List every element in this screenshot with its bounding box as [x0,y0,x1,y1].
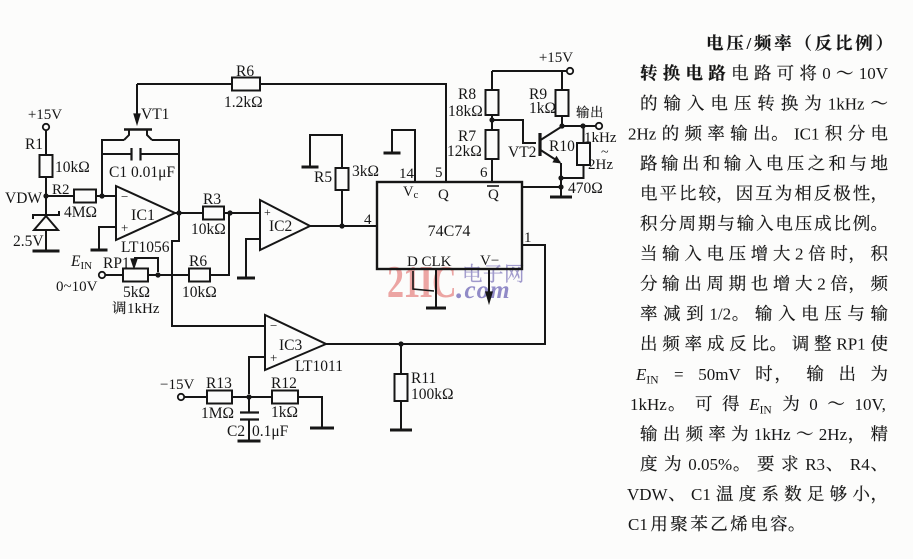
wire IC3 output [326,343,545,345]
svg-text:1.2kΩ: 1.2kΩ [224,94,263,111]
svg-text:=: = [674,365,684,384]
node emitter junction [558,175,563,180]
svg-text:E: E [748,395,760,414]
resistor R6b 10k [182,253,217,301]
svg-text:1MΩ: 1MΩ [201,405,234,422]
svg-text:LT1011: LT1011 [295,358,343,375]
svg-text:2: 2 [817,275,826,294]
wire CLK pin to ground [435,269,437,307]
svg-text:R3: R3 [805,455,825,474]
ground below C2 [238,440,261,443]
svg-text:RP1: RP1 [836,335,865,354]
transistor VT2 [508,127,561,163]
terminal E_IN [56,253,105,295]
wire EIN to RP1 [105,274,123,276]
wire D pin hook [413,271,434,291]
svg-text:LT1056: LT1056 [121,239,170,256]
resistor R5 3k [314,163,379,190]
svg-text:0: 0 [822,64,831,83]
wire R10 top [583,126,585,143]
svg-text:R12: R12 [271,375,297,392]
svg-text:R6: R6 [236,63,254,80]
svg-text:R3: R3 [203,191,221,208]
ground below R11 [390,429,412,432]
svg-text:Q: Q [488,187,499,203]
svg-text:0.05%: 0.05% [688,455,732,474]
svg-text:2Hz: 2Hz [819,425,848,444]
wire rail down to R8 [491,71,493,90]
svg-text:12kΩ: 12kΩ [447,143,482,160]
wire R12 to ground [298,397,322,427]
resistor R12 1k [271,375,298,421]
wire R6 to 74C74 pin5 [260,84,446,182]
capacitor C2 0.1uF [227,397,289,440]
resistor R6 1.2k [224,63,263,111]
wire R11 bottom to ground [400,401,402,429]
svg-text:−: − [121,189,128,204]
IC 74C74 flip-flop body [377,182,522,269]
svg-text:+: + [270,350,277,365]
ground above R5 [302,166,319,169]
ground at IC1 + input [91,249,108,252]
svg-text:10kΩ: 10kΩ [191,221,226,238]
svg-text:0: 0 [809,395,818,414]
svg-text:VDW: VDW [5,190,42,207]
svg-text:R11: R11 [411,370,436,387]
svg-text:1kHz: 1kHz [630,395,667,414]
svg-text:V−: V− [480,253,499,269]
svg-text:5kΩ: 5kΩ [123,284,150,301]
svg-text:0.1μF: 0.1μF [252,423,289,440]
wire R1 to VDW node [45,177,47,197]
wire Qbar line to emitter ground node [521,186,561,188]
ground right of R12 [310,427,334,430]
svg-text:IC1: IC1 [794,124,820,143]
zener diode VDW 2.5V [13,196,59,251]
resistor R3 10k [191,191,226,238]
svg-text:4MΩ: 4MΩ [64,204,97,221]
wire R5 top to ground [310,135,342,168]
svg-text:VT2: VT2 [508,144,536,161]
svg-text:R10: R10 [549,138,575,155]
node output dot [580,123,585,128]
svg-text:−: − [270,318,277,333]
wire VT2 emitter down [560,163,562,187]
resistor R10 470 [549,138,590,165]
svg-text:4: 4 [364,212,372,228]
svg-text:R6: R6 [189,253,207,270]
node +15V terminal (right) [539,50,573,74]
wire R7 to pin6 [491,159,493,182]
wire V- pin downward arrow [486,269,492,303]
node R8-R7 junction [491,115,493,130]
wire RP1 to R4 [148,274,189,276]
wire IC1 output down to IC3 [172,213,265,326]
svg-text:10V,: 10V, [855,395,886,414]
svg-text:C2: C2 [227,423,245,440]
svg-text:C1: C1 [628,515,648,534]
svg-text:RP1: RP1 [103,255,130,272]
wire +15V down to R9 [561,71,563,90]
wire output node [562,125,596,127]
wire IC1 noninverting input to ground [99,227,116,250]
svg-text:VDW: VDW [627,485,669,504]
resistor R7 12k [447,128,499,160]
op-amp IC2 [260,200,310,250]
svg-text:1kHz: 1kHz [828,94,865,113]
svg-text:18kΩ: 18kΩ [448,103,483,120]
svg-text:1kHz: 1kHz [754,425,791,444]
resistor R2 4M [52,182,97,221]
svg-text:R2: R2 [52,182,70,198]
svg-text:2: 2 [795,245,804,264]
wire R3 to IC2 [224,212,260,214]
wire IC1 inverting input [102,195,116,197]
potentiometer RP1 5k [103,255,150,301]
svg-text:CLK: CLK [422,254,452,270]
wire R13 to node [232,396,272,398]
wire node to ground [560,187,562,196]
wire node to R2 [46,195,74,197]
node VDW junction [43,193,48,198]
wire VT1 gate to R6 [137,83,232,85]
op-amp IC1 LT1056 [116,186,175,256]
op-amp IC3 LT1011 [265,315,343,375]
svg-text:1kΩ: 1kΩ [529,100,556,117]
node R3-IC2 [227,210,232,215]
node +15V terminal (left) [28,107,62,130]
svg-text:470Ω: 470Ω [568,180,603,197]
ground below VDW [33,250,60,253]
ground below VT2 emitter [550,196,572,199]
svg-text:1kHz: 1kHz [127,301,160,317]
resistor R13 1M [201,375,234,422]
svg-text:Q: Q [438,187,449,203]
svg-text:D: D [407,254,418,270]
svg-text:0~10V: 0~10V [56,279,98,295]
svg-text:+15V: +15V [539,50,573,66]
resistor R9 1k [529,86,569,117]
svg-text:6: 6 [480,165,488,181]
svg-text:74C74: 74C74 [428,223,471,240]
svg-text:2Hz: 2Hz [588,157,613,173]
node IC3 output R11 [398,341,403,346]
node IC1 inverting input [99,193,104,198]
wire R9 to output node [561,116,563,127]
RP1 wiper arrow [131,258,158,272]
wire R5 bottom to node [341,190,343,226]
wire R2 to IC1 inverting node [96,195,103,197]
resistor R8 18k [448,86,499,120]
svg-text:R13: R13 [206,375,232,392]
wire +15V rail [492,70,567,72]
node VT2 collector [559,123,564,128]
node R13-R12-C2 [246,394,251,399]
wire R4 up to R3 node [210,213,229,275]
wire +15V to R1 [45,130,47,155]
svg-text:IC2: IC2 [269,218,292,235]
terminal output [596,123,602,129]
svg-text:IN: IN [646,374,659,386]
wire pin14 to ground bracket [392,130,415,182]
svg-text:1/2: 1/2 [709,305,731,324]
svg-text:R8: R8 [458,86,476,103]
wire pin1 to IC3 output [522,245,545,345]
svg-text:/: / [746,34,752,53]
svg-text:3kΩ: 3kΩ [352,163,379,180]
svg-text:1: 1 [524,230,532,246]
wire feedback loop right side [152,140,179,213]
svg-text:10kΩ: 10kΩ [55,159,90,176]
wire IC2 output to 74C74 pin4 [310,225,377,227]
svg-text:5: 5 [435,165,443,181]
svg-text:1kΩ: 1kΩ [271,404,298,421]
wire R11 top [400,344,402,374]
node IC2 output R5 [339,223,344,228]
wire IC2 lower input to ground [246,239,260,277]
wire feedback loop left side [102,140,124,196]
svg-text:+: + [121,220,128,235]
svg-text:R1: R1 [25,136,43,153]
description text block [708,34,882,53]
terminal -15V [160,377,194,400]
svg-text:50mV: 50mV [698,365,741,384]
svg-text:+: + [264,205,271,219]
wire -15V to R13 [184,396,207,398]
svg-text:10kΩ: 10kΩ [182,284,217,301]
capacitor C1 0.01uF [103,148,179,181]
svg-text:IC1: IC1 [131,207,155,224]
ground at pin14 bracket [384,152,401,155]
svg-text:E: E [635,365,647,384]
svg-text:10V: 10V [859,64,889,83]
svg-text:−15V: −15V [160,377,194,393]
wire junction to VT2 base [492,120,536,143]
node IC1 output [175,212,203,214]
svg-text:VT1: VT1 [141,106,169,123]
wire R10 bottom to emitter node [561,165,584,178]
svg-text:IC3: IC3 [279,337,303,354]
resistor R1 10k [25,136,90,177]
node RP1 wiper junction [155,272,160,277]
svg-text:.com: .com [456,272,511,305]
wire IC3 + input down to R13 node [249,357,265,394]
svg-text:R5: R5 [314,169,332,186]
svg-text:+15V: +15V [28,107,62,123]
svg-text:2.5V: 2.5V [13,233,44,250]
svg-text:14: 14 [399,166,415,182]
watermark dianziwang [465,264,524,283]
transistor VT1 FET in feedback [124,84,169,140]
ground below CLK [426,307,446,310]
svg-text:C1 0.01μF: C1 0.01μF [109,164,175,181]
label tune 1kHz [112,301,159,317]
svg-text:2Hz: 2Hz [628,124,657,143]
ground at IC2 input [237,277,255,280]
svg-text:IN: IN [760,404,773,416]
svg-text:C1: C1 [691,485,711,504]
label 1kHz to 2Hz [584,130,617,173]
pin label Qbar [487,186,499,203]
svg-text:R4: R4 [850,455,870,474]
node above ground 470 [558,184,563,189]
svg-text:100kΩ: 100kΩ [411,386,454,403]
label output chinese [576,106,602,119]
resistor R11 100k [395,370,454,403]
